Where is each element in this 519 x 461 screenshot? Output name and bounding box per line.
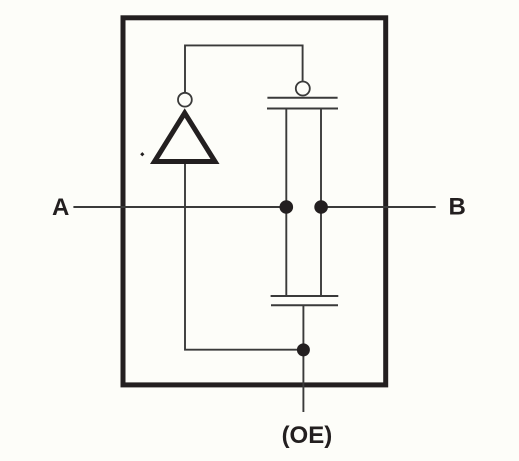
top gate bar (p-channel gate) bbox=[267, 97, 337, 99]
svg-text:B: B bbox=[449, 193, 466, 220]
inverter U1 (triangle, output bubble up) bbox=[155, 113, 216, 162]
p-gate bubble on transmission gate bbox=[296, 82, 310, 96]
wire A input (A to left switch node) bbox=[73, 206, 286, 208]
bottom channel plate bbox=[271, 295, 339, 297]
node A junction dot bbox=[280, 200, 294, 214]
wire OE pin: bottom gate down through box edge bbox=[302, 305, 304, 412]
wire inverter bubble to top rail bbox=[185, 45, 303, 92]
bottom gate bar (n-channel gate) bbox=[271, 304, 338, 306]
svg-text:A: A bbox=[52, 194, 69, 221]
junction dot OE net bbox=[297, 343, 310, 356]
inverter output bubble bbox=[178, 93, 192, 107]
stray speck bbox=[140, 152, 144, 156]
right channel line (B side of switch) bbox=[320, 109, 322, 297]
device outline box bbox=[123, 18, 386, 385]
top channel plate bbox=[267, 108, 338, 110]
left channel line (A side of switch) bbox=[285, 109, 287, 297]
wire B output (right switch node to B) bbox=[321, 206, 436, 208]
wire inverter input: OE net up from junction, left then up to triangle base bbox=[185, 161, 303, 350]
node B junction dot bbox=[314, 200, 328, 214]
svg-text:(OE): (OE) bbox=[282, 422, 333, 449]
